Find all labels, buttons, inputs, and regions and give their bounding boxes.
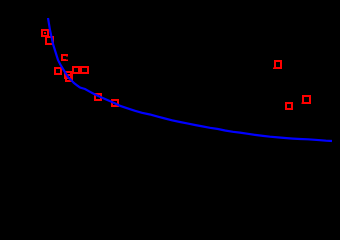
marker square S1 xyxy=(42,30,48,36)
marker square S5a xyxy=(65,72,71,78)
marker square S3 xyxy=(62,55,67,60)
marker square S7 xyxy=(81,67,88,73)
marker square S11 xyxy=(286,103,292,109)
marker square S10 xyxy=(275,61,281,68)
center dot inside S1 xyxy=(44,32,46,34)
marker square S6 xyxy=(73,67,79,73)
marker square S4 xyxy=(55,68,61,74)
blue fitted decay curve xyxy=(48,18,332,141)
marker square S9 xyxy=(112,100,118,106)
marker square S8 xyxy=(95,94,101,100)
notch at S10 bottom-left xyxy=(273,68,275,70)
marker square S12 xyxy=(303,96,310,103)
marker square S5b xyxy=(66,75,72,81)
black gap on right edge of S3 xyxy=(66,57,69,60)
notch at S12 bottom-left xyxy=(302,103,304,105)
marker square S2 xyxy=(46,37,53,44)
